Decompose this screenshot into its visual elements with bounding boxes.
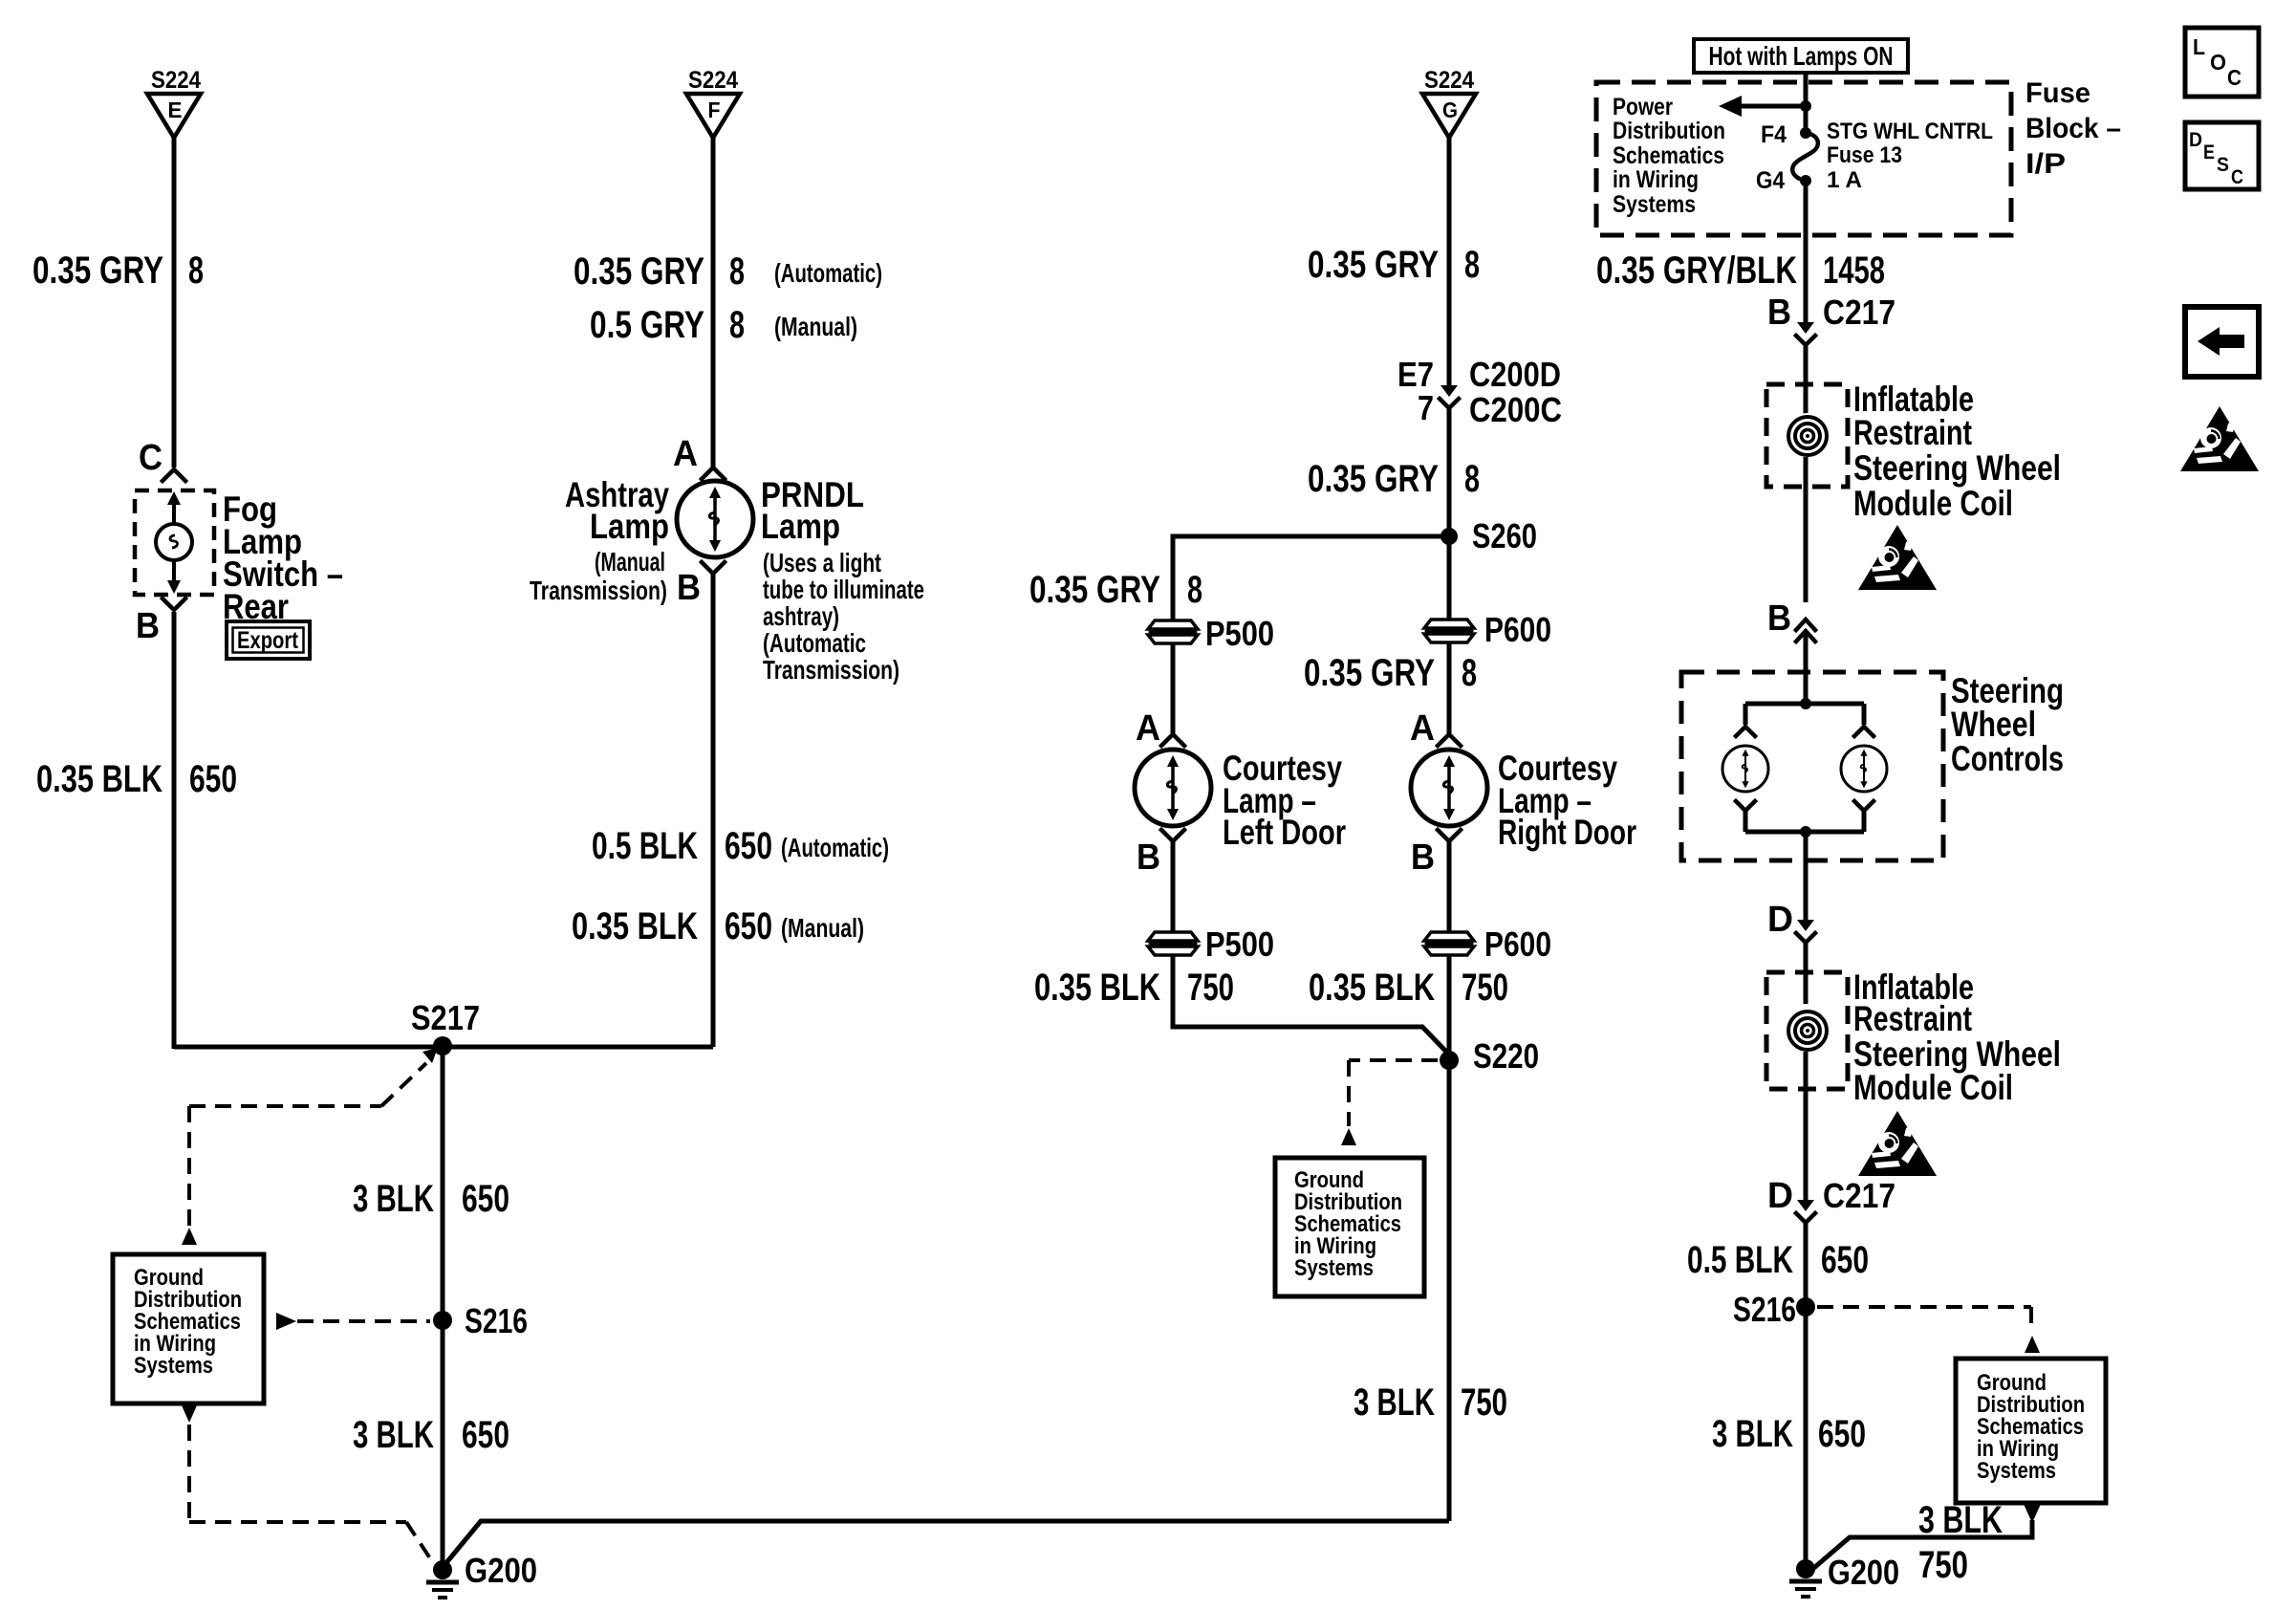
wire from right lamp terminal B to P600 (return) <box>1447 841 1452 932</box>
svg-text:0.5 BLK: 0.5 BLK <box>592 825 698 867</box>
pass-through grommet P600 (feed) <box>1424 620 1474 642</box>
svg-text:8: 8 <box>729 250 745 293</box>
dashed reference arrow to S216 <box>276 1313 296 1330</box>
svg-text:P600: P600 <box>1484 610 1551 649</box>
svg-text:S216: S216 <box>465 1301 528 1340</box>
svg-text:8: 8 <box>1462 652 1477 694</box>
svg-text:(Uses a light: (Uses a light <box>763 548 881 577</box>
svg-text:8: 8 <box>1464 244 1480 286</box>
svg-text:Fuse: Fuse <box>2025 77 2090 109</box>
fuse terminal G4 <box>1800 175 1811 186</box>
svg-text:(Automatic): (Automatic) <box>781 833 889 862</box>
svg-text:8: 8 <box>188 250 204 292</box>
off-page arrow and wire 3 BLK 750 into G200 <box>2024 1504 2041 1523</box>
wire 0.5/0.35 BLK 650 from lamp terminal B down to S217 run <box>711 574 716 1047</box>
svg-text:8: 8 <box>1464 458 1480 500</box>
svg-text:C200D: C200D <box>1469 355 1561 394</box>
wire 3 BLK 650 from S217 down to S216 and G200 <box>441 1047 445 1570</box>
arrow to power distribution schematics <box>1740 104 1806 109</box>
steering wheel controls dashed outline <box>1681 672 1943 860</box>
svg-text:8: 8 <box>729 304 745 346</box>
wire from P600 to right courtesy lamp terminal A <box>1447 642 1452 733</box>
svg-text:Systems: Systems <box>1294 1255 1374 1281</box>
svg-text:O: O <box>2210 50 2226 75</box>
wire from pin B into steering wheel controls <box>1804 631 1809 704</box>
svg-text:0.35 BLK: 0.35 BLK <box>36 758 162 800</box>
wire from P500 to left courtesy lamp terminal A <box>1171 643 1176 733</box>
left illumination lamp leg <box>1744 704 1748 725</box>
dashed reference from S216 to ground distribution note (right) <box>1817 1305 2031 1309</box>
svg-text:E: E <box>168 98 183 122</box>
svg-text:7: 7 <box>1418 388 1434 427</box>
svg-text:3 BLK: 3 BLK <box>1918 1499 2003 1541</box>
svg-text:0.5 GRY: 0.5 GRY <box>590 304 704 346</box>
svg-text:G200: G200 <box>465 1551 537 1590</box>
svg-text:S216: S216 <box>1733 1290 1796 1329</box>
svg-text:G200: G200 <box>1828 1553 1899 1592</box>
svg-text:0.35 GRY: 0.35 GRY <box>1308 458 1439 500</box>
svg-text:A: A <box>673 434 698 474</box>
svg-text:I/P: I/P <box>2025 148 2066 180</box>
svg-text:650: 650 <box>462 1178 509 1220</box>
SIR caution symbol (lower) <box>1858 1111 1937 1176</box>
ground distribution schematics note box (left) <box>113 1254 264 1403</box>
terminal B label (left door lamp) <box>1161 830 1184 841</box>
courtesy lamp - left door <box>1135 750 1211 826</box>
svg-text:650: 650 <box>462 1414 509 1456</box>
svg-text:Schematics: Schematics <box>1613 142 1724 169</box>
svg-text:0.35 GRY: 0.35 GRY <box>1308 244 1439 286</box>
svg-text:3 BLK: 3 BLK <box>1354 1382 1435 1424</box>
steering wheel controls top bus + junction <box>1800 698 1811 709</box>
svg-text:Controls: Controls <box>1951 739 2064 778</box>
svg-text:0.35 GRY: 0.35 GRY <box>1304 652 1435 694</box>
wire from left lamp terminal B to P500 (return) <box>1171 841 1176 932</box>
svg-text:S220: S220 <box>1473 1036 1539 1076</box>
legend back-arrow icon box <box>2185 307 2259 377</box>
svg-text:650: 650 <box>725 905 772 947</box>
splice S216 junction dot (right) <box>1796 1297 1815 1316</box>
ground G200 symbol (right) <box>1796 1559 1815 1578</box>
pass-through grommet P600 (return) <box>1424 932 1474 955</box>
svg-text:D: D <box>1767 1176 1793 1216</box>
wire from C217-B to SIR coil <box>1804 346 1809 415</box>
svg-text:Transmission): Transmission) <box>763 655 899 685</box>
svg-text:in Wiring: in Wiring <box>1613 166 1699 193</box>
svg-text:D: D <box>1767 900 1793 940</box>
SIR caution symbol (upper) <box>1858 525 1937 590</box>
svg-text:0.5 BLK: 0.5 BLK <box>1687 1239 1793 1281</box>
svg-text:Steering Wheel: Steering Wheel <box>1853 448 2061 488</box>
legend DESC icon box <box>2185 122 2259 189</box>
svg-text:Lamp: Lamp <box>590 507 669 546</box>
wire branch from S260 down to right door courtesy lamp <box>1447 536 1452 620</box>
svg-text:F: F <box>708 98 721 122</box>
arrowhead pointing down below note box <box>182 1405 197 1423</box>
svg-text:STG WHL CNTRL: STG WHL CNTRL <box>1827 119 1993 144</box>
svg-text:750: 750 <box>1462 967 1508 1009</box>
SIR coil symbol (lower) <box>1785 1008 1830 1054</box>
svg-text:(Manual): (Manual) <box>774 312 857 341</box>
svg-text:tube to illuminate: tube to illuminate <box>763 575 924 604</box>
svg-text:G4: G4 <box>1756 167 1785 194</box>
svg-text:0.35 GRY/BLK: 0.35 GRY/BLK <box>1596 250 1797 292</box>
terminal C connector chevron <box>162 469 185 481</box>
svg-text:750: 750 <box>1461 1382 1507 1424</box>
legend SIR caution symbol <box>2180 406 2259 471</box>
inflatable restraint steering wheel module coil (upper) dashed outline <box>1766 384 1848 487</box>
wire from left branch P500 to splice S220 <box>1173 955 1449 1055</box>
wire 0.35 GRY 8 from C200C down to splice S260 <box>1447 408 1452 536</box>
terminal B connector chevron <box>162 598 185 610</box>
off-page triangle connector E from S224 <box>147 94 201 138</box>
svg-text:C: C <box>139 438 162 478</box>
SIR coil symbol (upper) <box>1785 413 1830 459</box>
terminal A connector chevron <box>702 468 725 479</box>
svg-text:0.35 BLK: 0.35 BLK <box>1034 967 1160 1009</box>
svg-text:750: 750 <box>1918 1544 1968 1586</box>
svg-text:Left Door: Left Door <box>1223 813 1346 852</box>
svg-text:0.35 GRY: 0.35 GRY <box>32 250 163 292</box>
svg-text:650: 650 <box>189 758 237 800</box>
svg-text:Fuse 13: Fuse 13 <box>1827 142 1902 168</box>
off-page triangle connector G from S224 <box>1422 94 1476 138</box>
inflatable restraint steering wheel module coil (lower) dashed outline <box>1766 972 1848 1089</box>
svg-text:Export: Export <box>237 627 299 654</box>
svg-text:Transmission): Transmission) <box>530 576 667 605</box>
legend LOC icon box <box>2185 28 2259 97</box>
svg-text:(Automatic: (Automatic <box>763 628 866 658</box>
svg-text:Module Coil: Module Coil <box>1853 1068 2013 1107</box>
svg-text:0.35 BLK: 0.35 BLK <box>1309 967 1435 1009</box>
svg-text:(Manual): (Manual) <box>781 913 864 943</box>
svg-text:8: 8 <box>1187 569 1202 611</box>
svg-text:Hot with Lamps ON: Hot with Lamps ON <box>1709 41 1894 71</box>
terminal B label (right door lamp) <box>1438 830 1461 841</box>
svg-text:S217: S217 <box>411 998 480 1037</box>
svg-text:3 BLK: 3 BLK <box>353 1178 434 1220</box>
svg-text:750: 750 <box>1187 967 1234 1009</box>
ground distribution schematics note box (right) <box>1956 1359 2106 1503</box>
splice S216 junction dot <box>433 1311 452 1330</box>
svg-text:0.35 GRY: 0.35 GRY <box>1029 569 1160 611</box>
splice S217 junction dot <box>433 1036 452 1055</box>
fuse block - I/P dashed outline <box>1596 82 2011 235</box>
fog lamp switch - rear dashed outline <box>135 490 214 595</box>
svg-text:Right Door: Right Door <box>1498 813 1636 852</box>
svg-text:ashtray): ashtray) <box>763 601 839 631</box>
wire horizontal run joining fog switch and PRNDL lamp grounds at S217 <box>174 1045 713 1050</box>
svg-text:P500: P500 <box>1205 925 1274 964</box>
svg-text:B: B <box>677 568 701 608</box>
svg-text:B: B <box>1767 293 1791 333</box>
wire from pin D to SIR coil (lower) <box>1804 944 1809 1004</box>
svg-text:(Automatic): (Automatic) <box>774 258 882 288</box>
ground distribution schematics note box (middle) <box>1275 1158 1424 1296</box>
svg-text:B: B <box>1411 838 1435 878</box>
svg-text:Restraint: Restraint <box>1853 413 1972 452</box>
svg-text:1458: 1458 <box>1823 250 1885 292</box>
wire bottom run from right branch to ground G200 <box>444 1521 1449 1565</box>
svg-text:S224: S224 <box>688 67 738 94</box>
svg-text:3 BLK: 3 BLK <box>1712 1413 1793 1455</box>
svg-text:Systems: Systems <box>1613 191 1696 218</box>
svg-text:B: B <box>1767 598 1791 639</box>
svg-text:(Manual: (Manual <box>595 547 665 577</box>
dashed reference line from note box to G200 <box>187 1425 191 1522</box>
svg-text:1 A: 1 A <box>1827 167 1862 193</box>
svg-text:S: S <box>2217 154 2229 176</box>
steering wheel controls bottom bus + junction <box>1745 830 1864 835</box>
svg-text:Systems: Systems <box>134 1353 213 1379</box>
pass-through grommet P500 (feed) <box>1148 620 1198 643</box>
svg-text:E: E <box>2203 141 2215 163</box>
power feed box: Hot with Lamps ON <box>1694 39 1908 73</box>
terminal B connector chevron <box>702 562 725 574</box>
svg-text:L: L <box>2193 34 2205 59</box>
arrowhead pointing up above ground distribution note box <box>182 1228 197 1245</box>
svg-text:P600: P600 <box>1484 925 1551 964</box>
junction dot at fuse feed <box>1800 100 1811 112</box>
fog lamp switch lower contact arrow <box>172 560 176 581</box>
wire from junction to fuse terminal F4 <box>1804 106 1809 133</box>
fuse terminal F4 <box>1800 127 1811 139</box>
svg-text:A: A <box>1410 708 1435 749</box>
svg-text:0.35 GRY: 0.35 GRY <box>574 250 704 293</box>
svg-text:650: 650 <box>1818 1413 1866 1455</box>
svg-text:S260: S260 <box>1472 516 1537 555</box>
svg-text:F4: F4 <box>1761 121 1787 148</box>
splice S260 junction dot <box>1440 528 1458 545</box>
svg-text:S224: S224 <box>151 67 201 94</box>
dashed reference from S220 to ground distribution note <box>1349 1058 1438 1062</box>
svg-text:P500: P500 <box>1205 614 1274 653</box>
wire 0.5 BLK 650 from C217-D to splice S216 <box>1804 1224 1809 1569</box>
svg-text:D: D <box>2189 129 2202 151</box>
svg-text:G: G <box>1442 98 1458 122</box>
ground G200 symbol <box>433 1560 452 1579</box>
svg-text:3 BLK: 3 BLK <box>353 1414 434 1456</box>
svg-text:C217: C217 <box>1823 1176 1895 1215</box>
svg-text:Systems: Systems <box>1977 1458 2056 1484</box>
svg-text:C: C <box>2231 166 2243 188</box>
svg-text:Module Coil: Module Coil <box>1853 484 2013 523</box>
wire branch from S260 to left door courtesy lamp <box>1173 536 1449 621</box>
wire from controls down to connector pin D <box>1804 832 1809 920</box>
wire 0.35 GRY/BLK 1458 from fuse to connector C217 pin B <box>1804 181 1809 322</box>
right illumination lamp leg <box>1862 704 1867 725</box>
splice S220 junction dot <box>1440 1051 1459 1070</box>
courtesy lamp - right door <box>1411 750 1487 826</box>
svg-text:B: B <box>1137 838 1160 878</box>
wire from S224-F down to PRNDL lamp terminal A <box>711 138 716 468</box>
svg-text:Wheel: Wheel <box>1951 705 2036 744</box>
off-page triangle connector F from S224 <box>686 94 740 138</box>
dashed reference line from ground distribution note to S217 <box>381 1063 426 1106</box>
wire 0.35 BLK 650 from switch terminal B down to splice S217 <box>172 612 177 1049</box>
fog lamp switch illumination lamp circle <box>156 524 192 560</box>
pass-through grommet P500 (return) <box>1148 932 1198 955</box>
svg-text:0.35 BLK: 0.35 BLK <box>572 905 698 947</box>
svg-text:C: C <box>2227 65 2242 90</box>
wire from hot feed into fuse block <box>1804 73 1809 106</box>
fuse element STG WHL CNTRL Fuse 13 1 A <box>1792 133 1818 181</box>
svg-text:650: 650 <box>725 825 772 867</box>
Export option box <box>227 621 310 659</box>
fog lamp switch upper contact arrow <box>172 503 176 524</box>
PRNDL / ashtray lamp symbol <box>677 481 753 557</box>
svg-text:Restraint: Restraint <box>1853 999 1972 1038</box>
svg-text:Power: Power <box>1613 94 1673 120</box>
svg-text:S224: S224 <box>1424 67 1474 94</box>
svg-text:650: 650 <box>1821 1239 1869 1281</box>
svg-text:Distribution: Distribution <box>1613 118 1725 144</box>
svg-text:Lamp: Lamp <box>761 507 840 546</box>
svg-text:C217: C217 <box>1823 293 1895 332</box>
svg-text:C200C: C200C <box>1469 390 1562 429</box>
svg-text:B: B <box>136 606 160 646</box>
wire from P600 down through splice S220 to G200 run <box>1447 955 1452 1521</box>
svg-text:A: A <box>1136 708 1160 749</box>
svg-text:Block –: Block – <box>2025 113 2121 144</box>
wire 0.35 GRY 8 from S224-G down to connector C200 <box>1447 138 1452 385</box>
wire 0.35 GRY 8 from S224-E down to fog lamp switch terminal C <box>172 138 177 468</box>
